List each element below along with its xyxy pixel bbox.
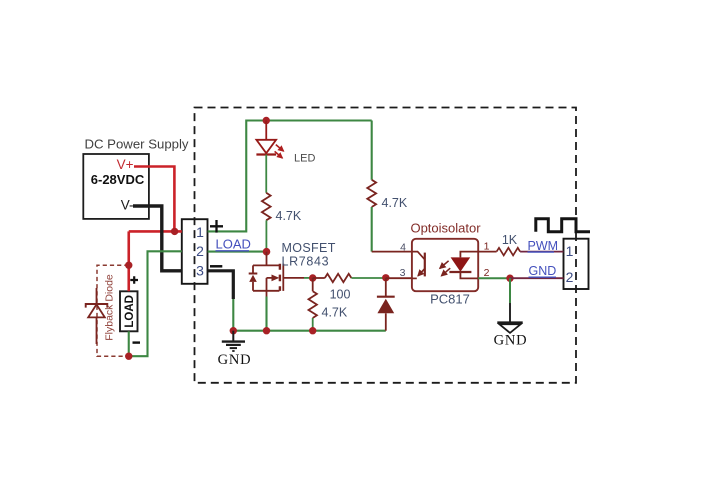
load plus label <box>130 276 138 284</box>
optoisolator U1 box <box>412 239 478 291</box>
wire opto pin1 to R5 <box>478 251 496 253</box>
pin1 plus label <box>210 220 223 233</box>
svg-text:LR7843: LR7843 <box>282 255 330 269</box>
wire load bottom green <box>129 251 182 356</box>
opto phototransistor <box>412 252 425 279</box>
wire V+ red <box>129 167 182 292</box>
flyback diode D1 <box>96 288 98 304</box>
wire R2 to diode junction <box>351 277 385 279</box>
mosfet Q1 LR7843 <box>249 252 304 297</box>
pwm square wave <box>536 219 590 232</box>
gnd drop wire <box>509 278 511 303</box>
svg-text:GND: GND <box>218 352 252 368</box>
resistor R3 4.7K pulldown <box>312 278 314 291</box>
ground symbol right <box>497 321 522 323</box>
wire R4 down <box>371 207 373 252</box>
svg-text:MOSFET: MOSFET <box>282 241 336 255</box>
svg-text:PC817: PC817 <box>430 291 470 306</box>
opto LED <box>460 252 478 258</box>
junction flyback bottom <box>125 353 132 360</box>
svg-text:V+: V+ <box>117 157 134 172</box>
svg-text:1: 1 <box>566 243 574 259</box>
junction flyback top <box>125 262 132 269</box>
svg-text:V-: V- <box>121 197 134 212</box>
wire R5 to connector <box>520 251 563 253</box>
wire pin3 to ground green part <box>232 299 234 331</box>
main dashed border <box>195 108 577 383</box>
protection diode D3 <box>385 278 387 297</box>
svg-text:PWM: PWM <box>528 239 559 253</box>
svg-text:1: 1 <box>196 224 204 240</box>
wire LED to R1 <box>265 155 267 193</box>
svg-text:GND: GND <box>529 264 557 278</box>
wire junction to connector <box>510 277 564 279</box>
wire pin2 to mosfet drain <box>208 251 267 253</box>
resistor R5 1K <box>497 248 520 256</box>
junction gate <box>309 274 316 281</box>
ground rail <box>233 330 385 332</box>
svg-text:2: 2 <box>566 269 574 285</box>
svg-text:DC Power Supply: DC Power Supply <box>84 136 188 151</box>
wire V- black <box>133 206 182 271</box>
wire top rail to R4 <box>371 121 373 180</box>
junction gnd <box>506 275 513 282</box>
wire source to rail <box>265 297 267 331</box>
svg-text:4.7K: 4.7K <box>276 209 302 223</box>
load box <box>120 291 138 331</box>
resistor R4 4.7K <box>367 180 376 207</box>
svg-text:LED: LED <box>294 153 315 165</box>
junction V+ <box>171 228 178 235</box>
load minus label <box>133 341 141 343</box>
svg-text:6-28VDC: 6-28VDC <box>91 172 145 187</box>
pin3 minus label <box>210 265 222 268</box>
wire to opto pin4 <box>372 251 412 253</box>
wire gate green part <box>304 277 313 279</box>
svg-text:4.7K: 4.7K <box>322 306 348 320</box>
LED arrows <box>276 145 284 152</box>
wire R1 to drain junction <box>265 220 267 251</box>
wire gate junction to R2 <box>313 277 325 279</box>
svg-text:1K: 1K <box>502 233 518 247</box>
wire opto pin2 to junction <box>478 277 510 279</box>
svg-text:3: 3 <box>400 267 406 279</box>
svg-text:LOAD: LOAD <box>216 237 251 252</box>
connector J1 box <box>182 219 208 284</box>
svg-text:100: 100 <box>330 288 351 302</box>
rail junctions <box>230 327 237 334</box>
resistor R2 100 <box>325 274 352 282</box>
wire top to LED <box>265 121 267 140</box>
ground symbol left <box>222 331 245 351</box>
wire pin1 to top rail <box>208 121 372 232</box>
wire junction to opto pin3 <box>386 277 412 279</box>
wire pin3 to ground black part <box>208 271 234 299</box>
flyback dashed box <box>97 265 129 356</box>
svg-text:4: 4 <box>400 241 406 253</box>
svg-text:3: 3 <box>196 263 204 279</box>
junction mosfet drain <box>263 248 271 256</box>
svg-text:2: 2 <box>196 243 204 259</box>
svg-text:4.7K: 4.7K <box>382 196 408 210</box>
LED D2 <box>256 140 276 153</box>
opto light arrows <box>440 261 449 269</box>
svg-text:GND: GND <box>494 333 528 349</box>
svg-text:1: 1 <box>484 241 490 253</box>
junction top rail <box>263 117 270 124</box>
svg-text:Optoisolator: Optoisolator <box>410 221 481 236</box>
svg-text:LOAD: LOAD <box>124 295 136 328</box>
svg-text:Flyback Diode: Flyback Diode <box>104 274 116 341</box>
connector J2 box <box>564 239 589 289</box>
resistor R1 4.7K <box>262 193 271 221</box>
DC power supply box <box>83 154 149 219</box>
junction gate diode <box>382 274 389 281</box>
